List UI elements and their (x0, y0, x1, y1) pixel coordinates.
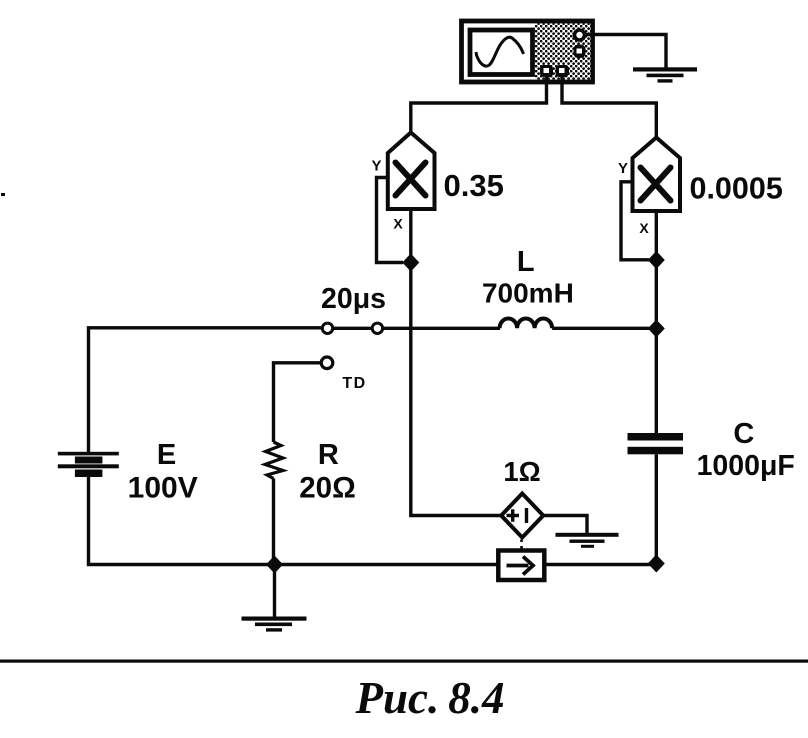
wire scope B-channel to right multiplier (562, 77, 656, 139)
dotted link CCVS to sensor (520, 540, 523, 551)
wire battery bottom to bus (89, 477, 499, 565)
wire U2 Y loop (621, 182, 649, 260)
node (right X junction) (648, 251, 665, 269)
node (left X junction) (402, 254, 419, 272)
svg-text:R: R (318, 439, 339, 471)
switch S1 contact 2 (372, 323, 382, 333)
CCVS V1 (1 ohm) (501, 494, 543, 538)
wire bus to inductor (383, 327, 500, 330)
wire cap bottom (655, 454, 658, 564)
separator rule (0, 660, 808, 663)
node (bottom-left junction) (266, 556, 283, 574)
svg-text:20Ω: 20Ω (299, 472, 355, 505)
svg-text:L: L (517, 246, 535, 278)
switch S1 blade (333, 327, 373, 330)
wire scope A-channel to left multiplier (411, 77, 547, 134)
oscilloscope XSC1 (462, 21, 593, 82)
wire left branch (top bus + left vertical) (89, 328, 323, 453)
svg-text:0.0005: 0.0005 (690, 172, 783, 206)
wire U1 X output down to CCVS (411, 209, 502, 516)
svg-text:Y: Y (618, 160, 628, 177)
ground (scope) (633, 67, 697, 82)
svg-text:X: X (393, 216, 403, 232)
svg-text:X: X (639, 220, 649, 236)
wire CCVS to ground (543, 516, 587, 534)
wire U1 Y loop (377, 178, 404, 263)
svg-text:C: C (733, 418, 754, 450)
speck (1, 193, 5, 196)
multiplier U1 (0.35) (388, 133, 435, 210)
svg-text:Рис. 8.4: Рис. 8.4 (355, 673, 505, 723)
wire R bottom to bus (272, 479, 275, 565)
switch S1 TD contact (321, 357, 333, 369)
wire U2 X output down (655, 211, 658, 329)
svg-text:700mH: 700mH (482, 278, 574, 309)
svg-text:E: E (157, 439, 176, 471)
svg-text:1000μF: 1000μF (697, 450, 795, 482)
resistor R (265, 442, 283, 479)
wire TD stub to R (274, 363, 321, 442)
svg-text:0.35: 0.35 (444, 168, 504, 203)
svg-text:1Ω: 1Ω (503, 456, 540, 487)
inductor L (500, 318, 552, 328)
wire scope ground (585, 35, 666, 68)
wire cap top (655, 329, 658, 434)
capacitor C (628, 433, 684, 454)
wire inductor to right node (552, 327, 656, 330)
svg-text:Y: Y (371, 158, 381, 175)
multiplier U2 (0.0005) (633, 138, 681, 212)
ground (CCVS) (556, 533, 619, 548)
svg-text:20μs: 20μs (321, 283, 386, 315)
wire sensor to right node (544, 563, 656, 566)
node (bus / capacitor junction) (648, 320, 665, 338)
current sensor (arrow box) (498, 551, 544, 581)
ground (bottom) (242, 617, 307, 632)
node (bottom-right junction) (648, 555, 665, 573)
battery E (58, 452, 119, 477)
svg-text:100V: 100V (128, 472, 198, 505)
svg-text:TD: TD (342, 375, 366, 392)
switch S1 contact 1 (322, 323, 332, 333)
wire junction to ground (273, 565, 276, 619)
